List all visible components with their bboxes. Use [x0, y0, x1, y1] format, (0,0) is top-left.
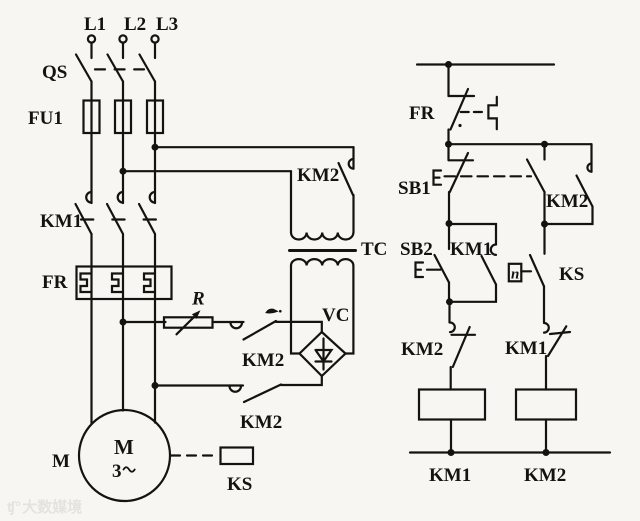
contact KM1 latch blade [482, 256, 497, 285]
wire KM1 pole3 to FR [154, 234, 156, 267]
button SB1 NO pole blade [527, 160, 545, 193]
fuse FU1 element 2 [115, 101, 131, 134]
contactor KM1 main pole 3 terminal arc [150, 192, 155, 203]
svg-text:3: 3 [112, 461, 122, 482]
speed switch KS body [221, 448, 254, 465]
terminal L1 [88, 35, 95, 42]
speed switch KS blade [530, 255, 544, 286]
coil KM2 [516, 390, 576, 420]
wire L3 stub [154, 43, 156, 58]
contact KM2 latch drop wire [590, 144, 592, 172]
svg-text:FR: FR [42, 272, 68, 293]
relay FR NC pivot dot [458, 124, 461, 127]
svg-text:SB2: SB2 [400, 239, 433, 260]
thermal relay FR heater 2 [112, 274, 123, 293]
svg-text:ʧ° 大数媒境: ʧ° 大数媒境 [7, 498, 82, 516]
svg-text:SB1: SB1 [398, 178, 431, 199]
contactor KM1 main pole 2 terminal arc [118, 192, 123, 203]
wire L2 branch down to TC primary [290, 171, 292, 232]
button SB2 operator [416, 263, 424, 278]
svg-text:FU1: FU1 [28, 108, 63, 129]
wire QS pole2 to fuse [122, 82, 124, 101]
svg-text:FR: FR [409, 103, 435, 124]
svg-text:R: R [191, 289, 205, 310]
wire QS pole1 to fuse [90, 82, 92, 101]
node C junction [446, 220, 453, 227]
wire fuse3 to KM1 [154, 133, 156, 203]
contact KM2 latch blade [577, 176, 593, 207]
relay FR actuator symbol [488, 97, 496, 129]
wire KM2 feed drop [352, 147, 354, 168]
node braking tap on V phase [120, 319, 127, 326]
button SB2 NO blade [435, 255, 450, 283]
speed switch KS operator box [509, 264, 522, 282]
wire FR to motor U [90, 299, 92, 424]
transformer TC primary winding [291, 233, 353, 240]
svg-text:KM2: KM2 [546, 191, 588, 212]
relay FR NC contact blade [451, 89, 469, 130]
wire TC secondary right to rectifier [346, 266, 354, 354]
wire dashed motor to speed switch KS [171, 454, 219, 456]
svg-text:M: M [52, 451, 70, 472]
node L3 tap junction [152, 144, 159, 151]
button SB1 NC contact seat [449, 144, 474, 160]
speed switch KS operator dash [521, 270, 531, 272]
contact KM2 upper tick [266, 309, 278, 313]
wire KM1 pole1 to FR [90, 234, 92, 267]
contactor KM1 main pole 1 blade [76, 204, 92, 234]
terminal L3 [151, 35, 158, 42]
switch QS pole 1 blade [76, 55, 92, 82]
contact KM2 latch terminal arc [587, 164, 591, 172]
svg-text:KM1: KM1 [450, 239, 492, 260]
control: top supply rail [417, 63, 554, 65]
switch QS pole 2 blade [108, 55, 124, 82]
contact KM2 lower blade [244, 385, 281, 403]
thermal relay FR heater 3 [144, 274, 155, 293]
contact KM1 NC interlock seat [550, 332, 570, 334]
svg-text:KM1: KM1 [505, 338, 547, 359]
wire coil KM1 to bottom rail [450, 420, 452, 453]
contact KM1 NC interlock blade [548, 326, 566, 356]
svg-text:QS: QS [42, 62, 67, 83]
wire KM2 NC to coil KM1 [450, 367, 452, 390]
wire L3 tap to KM2 main contact [155, 146, 354, 148]
contact KM2 NC interlock seat [452, 334, 476, 336]
node braking tap on W phase [152, 382, 159, 389]
wire KM1 latch branch top [449, 224, 496, 245]
wire FR contact to node A [447, 130, 449, 145]
thermal relay FR heater 1 [81, 274, 92, 293]
contactor KM1 main pole 1 terminal arc [86, 192, 91, 203]
wire FR to motor V [122, 299, 124, 411]
fuse FU1 element 3 [147, 101, 163, 134]
contact KM2 lower terminal arc [230, 386, 242, 392]
contactor KM1 main pole 2 blade [107, 204, 123, 234]
wire SB2 to node D [448, 283, 450, 302]
switch QS pole 3 blade [140, 55, 156, 82]
switch QS linkage dashed [95, 68, 144, 70]
contact KM2 transformer-feed blade [339, 163, 354, 195]
contactor KM1 linkage dashed [81, 218, 157, 220]
node coil KM1 rail junction [448, 449, 455, 456]
button SB1 operator [434, 171, 442, 185]
svg-text:KM2: KM2 [297, 165, 339, 186]
wire resistor to KM2 contact [213, 321, 244, 323]
svg-text:L2: L2 [124, 14, 146, 35]
contactor KM1 main pole 3 blade [139, 204, 155, 234]
relay FR NC contact seat [449, 95, 475, 97]
speed switch KS contact wire [543, 224, 545, 254]
svg-text:M: M [114, 435, 134, 459]
contact KM2 transformer-feed terminal arc [349, 159, 354, 169]
node top of SB1 second pole [541, 141, 548, 148]
button SB2 operator dashed link [427, 269, 440, 271]
control: bottom supply rail [410, 451, 610, 453]
wire node A to KM2 branch [449, 143, 592, 145]
contact KM2 NC interlock terminal arc [450, 323, 455, 333]
svg-text:TC: TC [361, 239, 387, 260]
node D junction [446, 298, 453, 305]
wire V tap to resistor R [123, 321, 166, 323]
svg-text:L3: L3 [156, 14, 178, 35]
button SB1 NO pole wire [543, 144, 545, 159]
wire KM2 feed to TC primary [352, 195, 354, 233]
svg-text:n: n [511, 267, 519, 283]
wire KM2 upper to rectifier plus [276, 322, 322, 332]
rectifier VC diode [316, 339, 332, 370]
svg-text:L1: L1 [84, 14, 106, 35]
svg-text:KM1: KM1 [40, 211, 82, 232]
svg-text:KM2: KM2 [240, 412, 282, 433]
transformer TC secondary winding [291, 259, 353, 265]
wire KM2 latch to node B [545, 207, 593, 225]
svg-text:VC: VC [322, 305, 349, 326]
rectifier VC bridge diamond [300, 332, 346, 376]
button SB1 NC contact blade [450, 153, 468, 192]
resistor R adjust arrow [177, 316, 196, 334]
svg-text:KM1: KM1 [429, 465, 471, 486]
contact KM2 upper terminal arc [231, 323, 243, 329]
svg-text:KS: KS [559, 264, 584, 285]
svg-text:KS: KS [227, 474, 252, 495]
thermal relay FR box [77, 267, 172, 300]
transformer TC core [290, 249, 356, 252]
wire SB1 NO pole to node B [543, 192, 545, 224]
button SB2 NO contact wire [448, 224, 450, 250]
contact KM1 latch terminal arc [491, 245, 496, 255]
wire KM1 NC to coil KM2 [545, 356, 547, 390]
wire L2 stub [122, 43, 124, 58]
resistor R [164, 317, 213, 327]
node B junction [541, 221, 548, 228]
wire coil KM2 to bottom rail [545, 420, 547, 453]
contact KM2 NC interlock blade [453, 327, 470, 367]
node coil KM2 rail junction [543, 449, 550, 456]
motor M stator circle [79, 410, 170, 501]
button SB1 operator dashed link [445, 175, 532, 177]
node control rail tap [445, 61, 452, 68]
wire KS to KM1 NC [543, 286, 545, 322]
wire KM1 latch branch bottom [449, 285, 496, 302]
svg-text:KM2: KM2 [242, 350, 284, 371]
coil KM1 [419, 390, 485, 420]
node L2 tap junction [120, 168, 127, 175]
wire fuse1 to KM1 [90, 133, 92, 203]
node A junction [445, 141, 452, 148]
contact KM2 upper blade [244, 321, 277, 340]
wire fuse2 to KM1 [122, 133, 124, 203]
wire L2 tap to transformer TC [123, 170, 291, 172]
svg-text:KM2: KM2 [401, 339, 443, 360]
terminal L2 [119, 35, 126, 42]
wire rail to FR contact [447, 65, 449, 97]
wire SB1 to node C [448, 192, 450, 224]
wire W tap to lower KM2 contact [155, 384, 243, 386]
fuse FU1 element 1 [84, 101, 100, 134]
wire QS pole3 to fuse [154, 82, 156, 101]
contact KM1 NC interlock terminal arc [544, 323, 549, 333]
wire KM1 pole2 to FR [122, 234, 124, 267]
svg-text:KM2: KM2 [524, 465, 566, 486]
wire KM2 lower to rectifier minus [281, 376, 322, 385]
wire TC secondary left to rectifier [291, 266, 300, 354]
relay FR actuator dashed link [461, 111, 486, 113]
wire FR to motor W [154, 299, 156, 423]
wire L1 stub [90, 43, 92, 58]
wire node D to KM2 NC contact [448, 302, 450, 323]
